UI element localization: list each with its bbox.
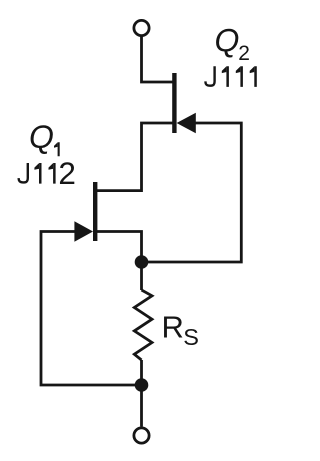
svg-text:R: R xyxy=(162,309,184,344)
svg-text:S: S xyxy=(183,324,199,350)
label Q2 value J111 xyxy=(206,66,257,87)
node A junction dot xyxy=(135,255,149,269)
terminal (bottom) xyxy=(134,428,149,443)
resistor RS xyxy=(134,290,152,360)
transistor Q2 channel bar xyxy=(172,73,176,133)
svg-text:Q: Q xyxy=(215,22,240,58)
wire : Q1 gate loop (left) to bottom node xyxy=(41,232,142,386)
svg-text:2: 2 xyxy=(238,42,250,65)
wire : Q2 source to Q1 drain xyxy=(97,123,173,191)
label Q1 subscript 1 xyxy=(54,142,60,156)
terminal (top) xyxy=(134,20,149,35)
wire : resistor Rs bottom to bottom terminal xyxy=(140,360,143,427)
svg-text:2: 2 xyxy=(58,155,76,191)
wire : node A to resistor Rs top xyxy=(140,262,143,290)
label Q1 value J112 xyxy=(19,163,56,184)
wire : Q1 source to node A xyxy=(97,232,142,264)
transistor Q1 gate arrow xyxy=(74,221,93,242)
transistor Q1 channel bar xyxy=(93,182,97,241)
wire : top terminal to Q2 drain xyxy=(142,37,173,83)
wire : Q2 gate loop (right) to node A xyxy=(143,123,241,262)
transistor Q2 gate arrow xyxy=(177,113,196,134)
svg-text:Q: Q xyxy=(29,119,54,155)
bottom junction dot xyxy=(135,378,149,392)
